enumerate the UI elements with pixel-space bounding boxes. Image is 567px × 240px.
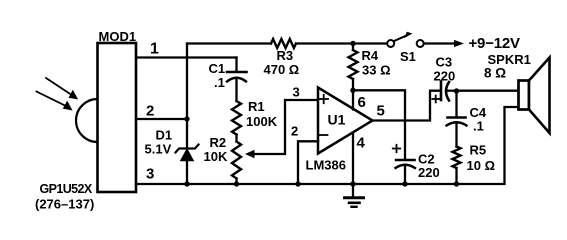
wire C1 drop bbox=[235, 58, 237, 72]
node pin2 gnd bbox=[295, 181, 300, 186]
wire top rail left segment bbox=[187, 42, 271, 44]
wire R5 bottom bbox=[455, 168, 457, 184]
ground symbol bbox=[345, 184, 364, 207]
switch S1 bbox=[387, 32, 424, 47]
node D1 bottom on ground rail bbox=[184, 181, 189, 186]
svg-text:.1: .1 bbox=[214, 75, 225, 90]
svg-text:6: 6 bbox=[358, 94, 366, 111]
svg-text:2: 2 bbox=[291, 124, 298, 139]
node R2 bottom bbox=[234, 181, 239, 186]
wire pin 1 of MOD1 bbox=[136, 56, 237, 58]
node pin2/D1 junction bbox=[184, 116, 189, 121]
svg-text:LM386: LM386 bbox=[306, 158, 346, 173]
capacitor C3 bbox=[441, 82, 457, 101]
wire pin 6 bbox=[352, 90, 354, 110]
capacitor C2 bbox=[396, 160, 416, 184]
C3 plus mark bbox=[432, 96, 439, 103]
svg-text:5.1V: 5.1V bbox=[145, 142, 172, 157]
svg-text:4: 4 bbox=[357, 135, 366, 152]
zener diode D1 bbox=[176, 145, 199, 185]
svg-text:33 Ω: 33 Ω bbox=[362, 63, 391, 78]
node pin 6 junction bbox=[350, 88, 355, 93]
IR ray arrow 1 bbox=[46, 78, 78, 100]
IR module MOD1 box bbox=[98, 43, 137, 192]
speaker SPKR1 bbox=[519, 58, 550, 134]
svg-text:U1: U1 bbox=[328, 112, 346, 128]
node pin 4 on rail bbox=[350, 181, 355, 186]
svg-text:MOD1: MOD1 bbox=[99, 29, 137, 44]
IR ray arrow 2 bbox=[37, 92, 73, 111]
svg-text:470 Ω: 470 Ω bbox=[264, 62, 300, 77]
svg-text:R2: R2 bbox=[210, 135, 227, 150]
plus input mark bbox=[320, 95, 329, 103]
svg-text:R5: R5 bbox=[470, 143, 487, 158]
svg-text:220: 220 bbox=[418, 165, 440, 180]
wire R1-R2 bbox=[235, 135, 237, 142]
svg-text:R1: R1 bbox=[248, 99, 265, 114]
minus input mark bbox=[319, 134, 328, 136]
supply arrowhead bbox=[454, 40, 464, 47]
resistor R3 bbox=[271, 39, 296, 48]
wire vertical supply branch x=187 bbox=[186, 44, 188, 148]
capacitor C4 bbox=[447, 118, 467, 147]
wire pin 2 of MOD1 bbox=[136, 118, 187, 120]
svg-text:2: 2 bbox=[146, 103, 154, 120]
lens of MOD1 bbox=[76, 99, 98, 142]
svg-text:D1: D1 bbox=[156, 128, 173, 143]
svg-text:100K: 100K bbox=[246, 114, 278, 129]
op-amp U1 triangle bbox=[318, 88, 373, 154]
svg-text:3: 3 bbox=[293, 85, 300, 100]
resistor R5 bbox=[453, 147, 461, 169]
resistor R1 bbox=[232, 101, 241, 135]
svg-text:C1: C1 bbox=[209, 61, 226, 76]
svg-text:10 Ω: 10 Ω bbox=[467, 158, 496, 173]
resistor R4 bbox=[349, 44, 358, 91]
svg-text:(276–137): (276–137) bbox=[35, 197, 94, 212]
svg-text:+9−12V: +9−12V bbox=[469, 35, 521, 52]
wire R2 bottom bbox=[235, 179, 237, 185]
potentiometer R2 bbox=[232, 142, 241, 179]
wire pin 4 to ground bbox=[352, 133, 354, 184]
C2 plus mark bbox=[393, 145, 400, 152]
capacitor C1 bbox=[227, 72, 247, 101]
svg-text:220: 220 bbox=[434, 69, 456, 84]
svg-text:.1: .1 bbox=[473, 119, 484, 134]
node R5 on rail bbox=[454, 181, 459, 186]
wire pin6 to C2 bbox=[353, 90, 405, 158]
node R4 top bbox=[350, 41, 355, 46]
wire junction down to C4 bbox=[455, 91, 457, 116]
svg-text:1: 1 bbox=[150, 41, 159, 58]
svg-text:8 Ω: 8 Ω bbox=[484, 66, 506, 81]
wire junction to speaker bbox=[457, 90, 519, 92]
node C2 on rail bbox=[402, 181, 407, 186]
ground rail (pin 3 of MOD1 to speaker return) bbox=[136, 107, 519, 184]
R2 wiper arrow to pin 3 bbox=[245, 100, 317, 158]
svg-text:R3: R3 bbox=[277, 48, 294, 63]
wire pin 2 ground stub bbox=[298, 141, 318, 184]
svg-text:R4: R4 bbox=[362, 48, 379, 63]
svg-text:GP1U52X: GP1U52X bbox=[40, 182, 93, 196]
node C3 output junction bbox=[454, 88, 459, 93]
svg-text:C3: C3 bbox=[436, 55, 453, 70]
svg-text:3: 3 bbox=[146, 166, 154, 183]
wire S1 to supply arrow bbox=[424, 42, 453, 44]
svg-text:10K: 10K bbox=[204, 149, 228, 164]
wire top rail right segment bbox=[296, 42, 387, 44]
svg-text:5: 5 bbox=[377, 103, 385, 120]
wire output pin 5 bbox=[373, 91, 441, 121]
svg-text:S1: S1 bbox=[400, 49, 416, 64]
